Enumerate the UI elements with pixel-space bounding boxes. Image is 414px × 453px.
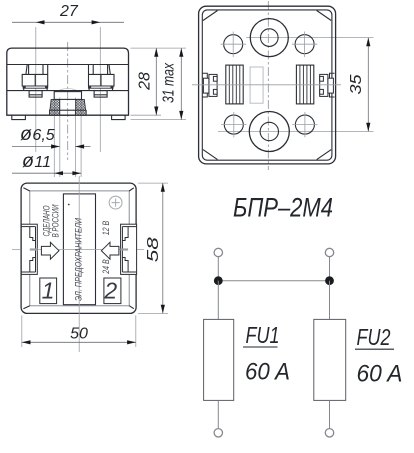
svg-text:28: 28 bbox=[137, 72, 154, 91]
inner face border bbox=[202, 10, 332, 160]
hole extension line d11 left bbox=[53, 100, 55, 177]
svg-text:58: 58 bbox=[145, 237, 162, 262]
mid parting line bbox=[7, 90, 129, 92]
svg-text:24 В: 24 В bbox=[101, 259, 111, 274]
top circles centerline / dim35 extension bbox=[246, 37, 374, 39]
svg-text:БПР–2М4: БПР–2М4 bbox=[233, 193, 333, 223]
fuse FU2 body bbox=[314, 319, 346, 400]
dim 28 bbox=[131, 48, 187, 115]
corner tick TL bbox=[23, 188, 29, 191]
wire top-right terminal to junction bbox=[329, 257, 331, 281]
dim 27 bbox=[12, 3, 124, 24]
hole extension line d6.5 left bbox=[59, 98, 61, 178]
left clip tab bbox=[202, 73, 217, 97]
knurled bushing lower band bbox=[50, 110, 87, 115]
left foot bbox=[12, 115, 26, 119]
dim 50 bbox=[22, 315, 136, 347]
svg-text:50: 50 bbox=[70, 326, 88, 343]
wire FU2 to bottom terminal bbox=[329, 400, 331, 428]
wire bus between junctions bbox=[218, 280, 329, 282]
center axis dash-dot bbox=[67, 42, 69, 160]
hole extension line d11 right bbox=[80, 100, 82, 177]
horizontal centerline bbox=[12, 249, 144, 251]
big terminal bottom outer bbox=[249, 112, 289, 152]
corner chamfer TL bbox=[203, 11, 218, 21]
bolt axis line left bbox=[35, 27, 37, 152]
left clip bbox=[21, 224, 37, 274]
knurled bushing cap bbox=[54, 92, 81, 100]
svg-text:60 A: 60 A bbox=[245, 359, 290, 386]
bolt axis line right bbox=[99, 27, 101, 152]
svg-text:35: 35 bbox=[348, 74, 365, 94]
corner chamfer TR bbox=[317, 11, 332, 21]
corner tick TR bbox=[129, 188, 134, 191]
wire junction to FU2 bbox=[329, 281, 331, 320]
dim d11 bbox=[12, 150, 81, 175]
dim d6,5 bbox=[12, 123, 91, 149]
left terminal bolt bbox=[22, 65, 48, 98]
right clip tab bbox=[320, 73, 335, 97]
label plate bbox=[63, 194, 95, 305]
left fuse slot bbox=[226, 65, 243, 104]
junction node left bbox=[214, 276, 223, 285]
right fuse slot bbox=[296, 65, 313, 104]
vertical axis dash-dot bbox=[267, 1, 269, 170]
screw head bbox=[109, 196, 122, 209]
block arrow right-pointing bbox=[41, 242, 59, 259]
corner tick BL bbox=[23, 306, 29, 309]
svg-text:31 max: 31 max bbox=[161, 62, 178, 103]
hole extension line d6.5 right bbox=[74, 98, 76, 178]
label FU2 underline bbox=[355, 348, 394, 350]
terminal bottom-left bbox=[214, 429, 222, 437]
fuse FU1 body bbox=[204, 319, 234, 400]
svg-text:27: 27 bbox=[59, 3, 79, 20]
svg-text:FU1: FU1 bbox=[246, 322, 280, 348]
svg-text:FU2: FU2 bbox=[357, 324, 391, 350]
dim 58 bbox=[138, 183, 168, 313]
wire FU1 to bottom terminal bbox=[217, 400, 219, 428]
screw hole bottom-left bbox=[221, 112, 246, 137]
horizontal centerline bbox=[192, 84, 341, 86]
dim 31 max bbox=[131, 48, 187, 120]
corner chamfer BR bbox=[317, 150, 332, 160]
wire top-left terminal to junction bbox=[217, 257, 219, 281]
right terminal bolt bbox=[89, 65, 115, 98]
corner chamfer BL bbox=[203, 150, 218, 160]
terminal bottom-right bbox=[325, 429, 333, 437]
wire junction to FU1 bbox=[217, 281, 219, 320]
svg-text:60 A: 60 A bbox=[357, 361, 403, 388]
block arrow left-pointing bbox=[101, 242, 119, 259]
big terminal top outer bbox=[250, 19, 288, 57]
vertical centerline bbox=[78, 176, 80, 352]
terminal top-right bbox=[325, 248, 333, 256]
svg-text:2: 2 bbox=[103, 278, 117, 304]
svg-text:ø6,5: ø6,5 bbox=[20, 123, 55, 145]
bottom circles centerline / dim35 extension bbox=[218, 131, 374, 133]
screw hole bottom-right bbox=[292, 112, 317, 137]
dim 35 bbox=[348, 38, 370, 132]
svg-text:ø11: ø11 bbox=[22, 150, 51, 172]
right foot bbox=[112, 115, 126, 119]
center window (light) bbox=[250, 67, 263, 103]
screw hole top-left bbox=[221, 32, 246, 57]
big terminal top inner bbox=[261, 29, 279, 47]
body outline bbox=[7, 48, 129, 115]
fuse window 2 bbox=[104, 278, 121, 304]
screw hole top-right bbox=[292, 32, 317, 57]
fuse window 1 bbox=[40, 278, 57, 304]
svg-text:1: 1 bbox=[42, 278, 55, 304]
inner face border bbox=[30, 191, 129, 306]
label plate dot bbox=[68, 204, 70, 206]
junction node right bbox=[325, 276, 334, 285]
knurled bushing right flank bbox=[76, 99, 86, 110]
svg-text:12 В: 12 В bbox=[101, 221, 111, 236]
big terminal bottom inner bbox=[260, 122, 278, 140]
knurled bushing left flank bbox=[50, 99, 60, 110]
label FU1 underline bbox=[243, 346, 278, 348]
svg-text:ЭЛ. ПРЕДОХРАНИТЕЛИ: ЭЛ. ПРЕДОХРАНИТЕЛИ bbox=[74, 218, 84, 301]
cap parting line bbox=[7, 64, 129, 66]
outer shell bbox=[199, 6, 336, 164]
terminal top-left bbox=[214, 248, 222, 256]
corner tick BR bbox=[129, 306, 134, 309]
outer shell bbox=[21, 183, 136, 313]
svg-text:В РОССИИ: В РОССИИ bbox=[51, 204, 61, 237]
hidden bushing arc bbox=[57, 89, 80, 92]
right clip bbox=[120, 224, 136, 274]
